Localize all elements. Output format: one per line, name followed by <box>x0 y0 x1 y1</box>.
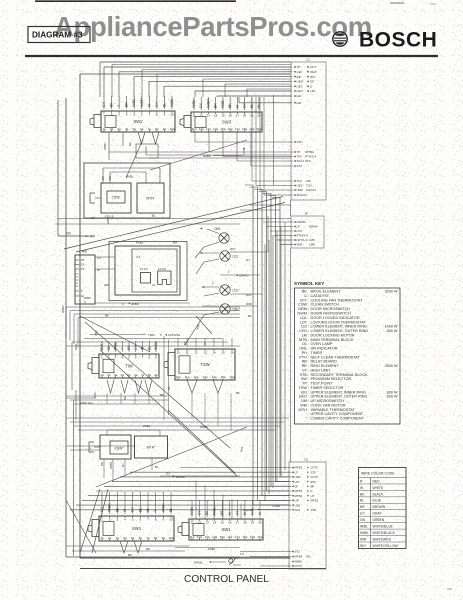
svg-text:BLACK: BLACK <box>373 492 385 496</box>
svg-text:2a: 2a <box>107 373 111 377</box>
svg-text:LM5: LM5 <box>309 238 315 242</box>
svg-text:GY: GY <box>155 101 159 107</box>
vertical wires between TIM and TSW <box>164 336 169 420</box>
svg-text:BK: BK <box>160 393 164 397</box>
scan mark bottom right <box>430 4 452 589</box>
DRM-prime wire label <box>220 270 260 278</box>
svg-text:17a: 17a <box>235 127 240 131</box>
svg-text:W/R: W/R <box>93 392 97 398</box>
svg-text:AW: AW <box>104 283 109 287</box>
GN wire and label <box>55 219 291 239</box>
svg-text:GY: GY <box>243 102 247 108</box>
indicator lamp ONL-doubleprime <box>220 304 241 314</box>
svg-text:W/R: W/R <box>246 302 253 306</box>
long diagonal wire TIM to DRM2 area <box>85 322 230 448</box>
svg-text:5a: 5a <box>133 127 137 131</box>
svg-text:14: 14 <box>212 350 216 354</box>
svg-text:UT: UT <box>311 494 315 498</box>
svg-text:11a: 11a <box>192 127 197 131</box>
svg-text:11: 11 <box>185 350 188 354</box>
bottom horizontal wires <box>66 546 289 557</box>
svg-text:F1 F2: F1 F2 <box>140 267 148 271</box>
svg-text:15: 15 <box>221 350 225 354</box>
svg-text:GN: GN <box>66 232 71 236</box>
svg-text:GY: GY <box>97 256 101 260</box>
svg-text:RE’: RE’ <box>297 75 302 79</box>
clean switch CSW-prime assembly box <box>84 163 170 218</box>
svg-text:LID’: LID’ <box>310 89 316 93</box>
TSW top wire stubs <box>178 338 232 347</box>
svg-text:GY: GY <box>91 216 95 220</box>
svg-text:14a: 14a <box>212 535 217 539</box>
svg-text:7a: 7a <box>141 373 145 377</box>
svg-text:19: 19 <box>251 520 255 524</box>
svg-text:W/Y: W/Y <box>246 293 252 297</box>
svg-text:11: 11 <box>190 520 193 524</box>
svg-text:W/BK: W/BK <box>203 154 212 158</box>
svg-text:W/BK: W/BK <box>131 302 140 306</box>
svg-text:7a: 7a <box>146 536 150 540</box>
svg-text:16: 16 <box>228 520 232 524</box>
svg-text:LF5: LF5 <box>297 229 303 233</box>
svg-text:BL: BL <box>147 346 151 350</box>
svg-text:13: 13 <box>207 113 211 117</box>
svg-text:CSW″: CSW″ <box>115 446 125 450</box>
central vertical wire bus <box>245 185 289 505</box>
svg-text:W/BK: W/BK <box>190 506 194 515</box>
svg-text:16a: 16a <box>227 535 232 539</box>
svg-text:W/BK: W/BK <box>132 98 136 107</box>
wires left of TIM <box>66 335 240 421</box>
svg-text:W/BK: W/BK <box>161 503 165 512</box>
svg-text:15a: 15a <box>220 375 225 379</box>
diagonal wire from RB to TIM <box>80 316 150 352</box>
svg-text:C’: C’ <box>310 84 313 88</box>
terminal box C right column <box>289 458 326 570</box>
svg-text:DIAGRAM #3: DIAGRAM #3 <box>32 31 83 40</box>
box B corner wires down to bus <box>265 222 285 500</box>
svg-text:8a: 8a <box>148 373 152 377</box>
diagonal wire to CSW area <box>150 140 247 170</box>
svg-text:6a: 6a <box>139 536 143 540</box>
svg-text:5a: 5a <box>127 373 131 377</box>
indicator lamp ONL-prime <box>219 233 229 243</box>
svg-text:C: C <box>311 489 313 493</box>
svg-text:16a: 16a <box>229 375 234 379</box>
svg-text:W/BK: W/BK <box>109 462 113 469</box>
svg-text:GY: GY <box>90 235 94 239</box>
FSW3 label <box>243 504 280 512</box>
terminal box A lower rows <box>294 140 317 197</box>
svg-text:W/BL: W/BL <box>360 525 368 529</box>
svg-text:14: 14 <box>213 520 217 524</box>
svg-text:10: 10 <box>170 112 174 116</box>
svg-text:BL: BL <box>243 511 247 515</box>
TIM top wire stubs <box>100 341 158 352</box>
timer module PH box <box>109 241 187 301</box>
svg-text:CFT’: CFT’ <box>310 65 317 69</box>
svg-text:BK: BK <box>128 142 132 146</box>
svg-text:GY: GY <box>246 258 250 262</box>
svg-text:P4: P4 <box>81 258 85 262</box>
svg-text:BL: BL <box>360 499 364 503</box>
svg-text:″ :: ″ : <box>306 417 309 421</box>
svg-text:DRM’3: DRM’3 <box>239 274 249 278</box>
wire staircase to SW1b <box>196 481 241 519</box>
diagonal wires lower-left <box>66 489 108 553</box>
wires below TIM <box>93 380 164 400</box>
svg-text:GN: GN <box>306 555 310 559</box>
svg-text:13a: 13a <box>206 127 211 131</box>
svg-text:GY: GY <box>121 463 125 467</box>
svg-text:TF2: TF2 <box>297 179 303 183</box>
svg-text:BL: BL <box>152 214 156 218</box>
connector SW1 <box>178 519 263 540</box>
svg-text:GREEN: GREEN <box>373 518 385 522</box>
svg-text:7a: 7a <box>148 127 152 131</box>
wires into box A lower rows <box>252 97 293 195</box>
svg-text:TSW4: TSW4 <box>272 504 280 508</box>
svg-text:WTH″: WTH″ <box>147 446 157 450</box>
wire bundle into terminal box C <box>70 468 291 510</box>
wires below SW2 <box>103 132 291 160</box>
svg-text:ST2: ST2 <box>295 550 301 554</box>
svg-text:18a: 18a <box>242 127 247 131</box>
svg-text:9a: 9a <box>162 536 166 540</box>
svg-text:1a: 1a <box>100 373 104 377</box>
symbol key legend <box>294 281 400 424</box>
svg-text:BK: BK <box>146 547 150 551</box>
svg-text:BR: BR <box>173 241 178 245</box>
svg-text:10: 10 <box>169 517 173 521</box>
svg-text:GY: GY <box>360 512 366 516</box>
svg-text:CSW’: CSW’ <box>112 196 121 200</box>
svg-text:20: 20 <box>258 520 262 524</box>
svg-text:3a: 3a <box>114 373 118 377</box>
svg-text:BLUE: BLUE <box>373 499 382 503</box>
wires below TSW <box>167 380 240 395</box>
svg-text:BL: BL <box>248 314 252 318</box>
svg-text:BK: BK <box>115 507 119 512</box>
svg-text:TP: TP <box>297 150 301 154</box>
svg-text:15: 15 <box>221 113 225 117</box>
svg-text:TSW: TSW <box>200 362 209 367</box>
svg-text:W/BK: W/BK <box>295 560 302 564</box>
svg-text:1a: 1a <box>100 536 104 540</box>
svg-text:SH2: SH2 <box>295 508 301 512</box>
svg-text:19a: 19a <box>250 535 255 539</box>
svg-text:4a: 4a <box>121 373 125 377</box>
svg-text:10a: 10a <box>175 375 180 379</box>
svg-text:VB4: VB4 <box>94 330 98 336</box>
svg-text:SW2 10a: SW2 10a <box>80 401 93 405</box>
svg-text:11a: 11a <box>185 375 190 379</box>
wires below TIM <box>66 393 168 404</box>
svg-text:11a: 11a <box>190 535 195 539</box>
svg-text:BK: BK <box>228 103 232 108</box>
indicator lamp LDL-doubleprime <box>220 285 241 295</box>
svg-text:BROWN: BROWN <box>373 505 386 509</box>
svg-text:BK: BK <box>236 391 240 395</box>
connector SW2 <box>90 111 175 132</box>
svg-text:LDL″: LDL″ <box>233 288 241 292</box>
svg-text:GN: GN <box>360 518 366 522</box>
svg-text:17a: 17a <box>235 535 240 539</box>
svg-text:CFT2: CFT2 <box>295 564 303 568</box>
svg-text:SF’: SF’ <box>310 80 315 84</box>
variable thermostat WTH-doubleprime <box>107 424 168 470</box>
svg-text:W/BK: W/BK <box>106 217 110 224</box>
svg-text:WTH’: WTH’ <box>146 197 155 201</box>
svg-text:UEO’: UEO’ <box>297 80 305 84</box>
svg-text:20a: 20a <box>257 535 262 539</box>
svg-text:W/M: W/M <box>74 343 78 350</box>
svg-text:PTH/2-4: PTH/2-4 <box>305 155 317 159</box>
W/BL label below SW1b <box>175 547 240 551</box>
svg-text:GY: GY <box>102 101 106 107</box>
svg-text:SCL2: SCL2 <box>297 159 305 163</box>
svg-text:C: C <box>122 302 124 306</box>
svg-text:4a: 4a <box>125 127 129 131</box>
scan edge mark top <box>35 1 404 3</box>
svg-text:4a: 4a <box>123 536 127 540</box>
SW2 top wire stubs with color labels <box>102 96 174 109</box>
connector TSW <box>164 349 235 380</box>
svg-text:W/BK: W/BK <box>170 98 174 107</box>
svg-text:W/R: W/R <box>297 243 304 247</box>
svg-text:W/BK: W/BK <box>108 503 112 512</box>
svg-text:1.5: 1.5 <box>240 552 244 556</box>
relay board RB <box>75 250 95 305</box>
svg-text:TF’: TF’ <box>297 65 302 69</box>
svg-text:BR: BR <box>214 103 218 108</box>
label TIM4 CONV2a <box>128 333 180 337</box>
svg-text:2-3: 2-3 <box>136 255 141 259</box>
svg-text:12: 12 <box>198 520 202 524</box>
svg-text:UEI’: UEI’ <box>297 70 303 74</box>
svg-text:W: W <box>97 268 100 272</box>
svg-text:STE: STE <box>311 508 317 512</box>
svg-text:BK: BK <box>123 396 127 400</box>
svg-text:WIRE COLOR CODE: WIRE COLOR CODE <box>361 472 395 476</box>
svg-text:UEI’: UEI’ <box>297 84 303 88</box>
svg-text:16: 16 <box>230 350 234 354</box>
svg-text:16a: 16a <box>228 127 233 131</box>
svg-text:9a: 9a <box>154 373 158 377</box>
svg-text:W/BK: W/BK <box>103 143 107 150</box>
wire bundle top staircase <box>100 62 292 103</box>
DRM2 wire label <box>160 472 240 479</box>
svg-text:WV’: WV’ <box>310 75 316 79</box>
svg-text:MTB2: MTB2 <box>311 499 319 503</box>
svg-text:11: 11 <box>192 113 195 117</box>
svg-text:BK: BK <box>105 314 109 318</box>
svg-text:ST2: ST2 <box>297 164 303 168</box>
svg-text:6a: 6a <box>140 127 144 131</box>
svg-text:TJN: TJN <box>306 184 312 188</box>
svg-text:W/BL: W/BL <box>126 175 134 179</box>
svg-text:CFT3: CFT3 <box>311 475 319 479</box>
svg-text:LEI’: LEI’ <box>297 94 303 98</box>
DRM1 microswitch <box>194 552 244 565</box>
SW1 top wire stubs with labels <box>100 492 173 514</box>
svg-text:W/R: W/R <box>100 343 104 350</box>
svg-text:1a: 1a <box>102 127 106 131</box>
svg-text:3000 W: 3000 W <box>385 290 398 294</box>
svg-text:14a: 14a <box>213 127 218 131</box>
svg-text:SW3: SW3 <box>222 119 232 124</box>
wires into box B <box>263 222 293 245</box>
svg-text:BR: BR <box>127 345 131 350</box>
svg-text:LF C5: LF C5 <box>158 267 166 271</box>
svg-text:BR: BR <box>125 102 129 107</box>
connector TIM <box>88 354 159 378</box>
svg-text:MTB3: MTB3 <box>295 494 303 498</box>
svg-text:2a: 2a <box>110 127 114 131</box>
svg-text:SW1: SW1 <box>132 526 142 531</box>
svg-text:UM2: UM2 <box>295 475 301 479</box>
svg-text:TF2: TF2 <box>297 155 303 159</box>
svg-text:C2: C2 <box>304 458 308 462</box>
svg-text:TIM4: TIM4 <box>148 333 155 337</box>
Bosch logo symbol <box>333 32 347 46</box>
header rule <box>25 55 438 57</box>
diagonal wire below SW2 <box>126 139 143 178</box>
svg-text:W/BK: W/BK <box>360 531 369 535</box>
svg-text:CONTROL PANEL: CONTROL PANEL <box>184 574 269 585</box>
W/BK label under SW3 <box>203 147 245 158</box>
svg-text:GY: GY <box>199 102 203 108</box>
svg-text:9a: 9a <box>163 127 167 131</box>
svg-text:18: 18 <box>243 113 247 117</box>
terminal box B right column <box>291 212 324 249</box>
svg-text:P3: P3 <box>81 267 85 271</box>
svg-text:BR: BR <box>360 505 365 509</box>
svg-text:W/BK: W/BK <box>84 296 91 300</box>
svg-text:ST2: ST2 <box>305 159 311 163</box>
svg-text:W/R: W/R <box>360 537 367 541</box>
svg-text:STF: STF <box>311 470 317 474</box>
svg-text:13a: 13a <box>205 535 210 539</box>
svg-text:BL: BL <box>138 508 142 512</box>
W-BK wire label below PH <box>95 302 190 306</box>
vertical wire right of SW3 <box>273 95 275 185</box>
svg-text:W/BL: W/BL <box>136 241 144 245</box>
svg-text:BL: BL <box>169 508 173 512</box>
svg-text:UE2: UE2 <box>297 184 303 188</box>
svg-text:RB: RB <box>82 250 87 254</box>
svg-text:W/BR: W/BR <box>61 305 65 313</box>
svg-text:MTB2: MTB2 <box>295 466 303 470</box>
SW1b top wire stubs <box>190 500 262 517</box>
svg-text:BL: BL <box>155 465 159 469</box>
svg-text:ULT: ULT <box>295 480 300 484</box>
wire labels above CSW-prime <box>103 168 160 183</box>
control panel frame <box>58 74 326 569</box>
svg-text:IPM: IPM <box>311 480 317 484</box>
svg-text:MTB4: MTB4 <box>295 555 303 559</box>
svg-text:CFT2: CFT2 <box>311 466 319 470</box>
svg-text:6a: 6a <box>134 373 138 377</box>
svg-text:W/BL: W/BL <box>250 507 254 515</box>
svg-text:UB2: UB2 <box>295 503 301 507</box>
wires below SW1 <box>120 541 150 557</box>
terminal box C lower rows <box>240 550 310 569</box>
svg-text:WTBH: WTBH <box>305 150 314 154</box>
svg-text:SH1/24: SH1/24 <box>297 193 307 197</box>
svg-text:12a: 12a <box>199 127 204 131</box>
svg-text:BK: BK <box>100 462 104 466</box>
mid horizontal wires right section <box>240 205 291 210</box>
svg-text:13: 13 <box>205 520 209 524</box>
svg-text:WHITE: WHITE <box>373 486 384 490</box>
clean switch CSW-prime <box>89 176 131 224</box>
DIAGRAM #3 label <box>28 27 90 43</box>
svg-text:LEO’: LEO’ <box>297 89 304 93</box>
svg-text:800 W: 800 W <box>387 395 398 399</box>
wires below TSW drops <box>192 393 231 430</box>
svg-text:BK: BK <box>110 102 114 107</box>
svg-text:AppliancePartsPros.com: AppliancePartsPros.com <box>54 11 372 42</box>
svg-text:BK: BK <box>167 386 171 390</box>
svg-text:P1: P1 <box>81 263 85 267</box>
nested wires below relay board <box>66 307 240 348</box>
svg-text:DRM4: DRM4 <box>309 225 318 229</box>
svg-text:W/Y: W/Y <box>230 247 236 251</box>
svg-text:20a: 20a <box>256 127 261 131</box>
svg-text:8a: 8a <box>155 127 159 131</box>
svg-text:W/BR: W/BR <box>206 99 210 108</box>
svg-text:SYMBOL KEY: SYMBOL KEY <box>294 281 324 286</box>
svg-text:15a: 15a <box>220 535 225 539</box>
svg-text:C1: C1 <box>306 58 310 62</box>
svg-text:JP: JP <box>304 212 308 216</box>
svg-text:20: 20 <box>257 113 261 117</box>
svg-text:2500 W: 2500 W <box>385 364 398 368</box>
svg-text:14: 14 <box>214 113 218 117</box>
connector SW1 <box>88 516 174 541</box>
svg-text:8a: 8a <box>154 536 158 540</box>
svg-text:15: 15 <box>221 520 225 524</box>
svg-text:18a: 18a <box>242 535 247 539</box>
svg-text:12a: 12a <box>193 375 198 379</box>
svg-text:C: C <box>84 300 86 304</box>
svg-text:W/BK: W/BK <box>192 99 196 108</box>
svg-text:16: 16 <box>228 113 232 117</box>
svg-text:BL: BL <box>162 103 166 107</box>
svg-text:LOWER CAVITY COMPONENT: LOWER CAVITY COMPONENT <box>311 417 365 421</box>
svg-text:CONV2a: CONV2a <box>168 333 180 337</box>
svg-text:LEI’: LEI’ <box>297 101 303 105</box>
svg-text:W/BL: W/BL <box>213 507 217 515</box>
svg-text:BR: BR <box>220 510 224 515</box>
svg-text:WHITE/YELLOW: WHITE/YELLOW <box>373 544 399 548</box>
svg-text:WHITE/RED: WHITE/RED <box>373 537 392 541</box>
svg-text:LM5: LM5 <box>309 243 315 247</box>
variable thermostat WTH-prime <box>137 183 164 218</box>
svg-text:17: 17 <box>236 113 240 117</box>
svg-text:LDC/11: LDC/11 <box>306 188 316 192</box>
svg-text:AL: AL <box>146 508 150 512</box>
svg-text:WHITE/BLACK: WHITE/BLACK <box>373 531 396 535</box>
svg-text:12: 12 <box>194 350 198 354</box>
svg-text:GY: GY <box>131 506 135 512</box>
wire labels left rails <box>61 305 98 350</box>
svg-text:W/BK: W/BK <box>200 425 208 429</box>
wire rows mid-bottom <box>66 418 289 430</box>
svg-text:LF: LF <box>295 470 299 474</box>
connector SW3 <box>180 112 262 132</box>
